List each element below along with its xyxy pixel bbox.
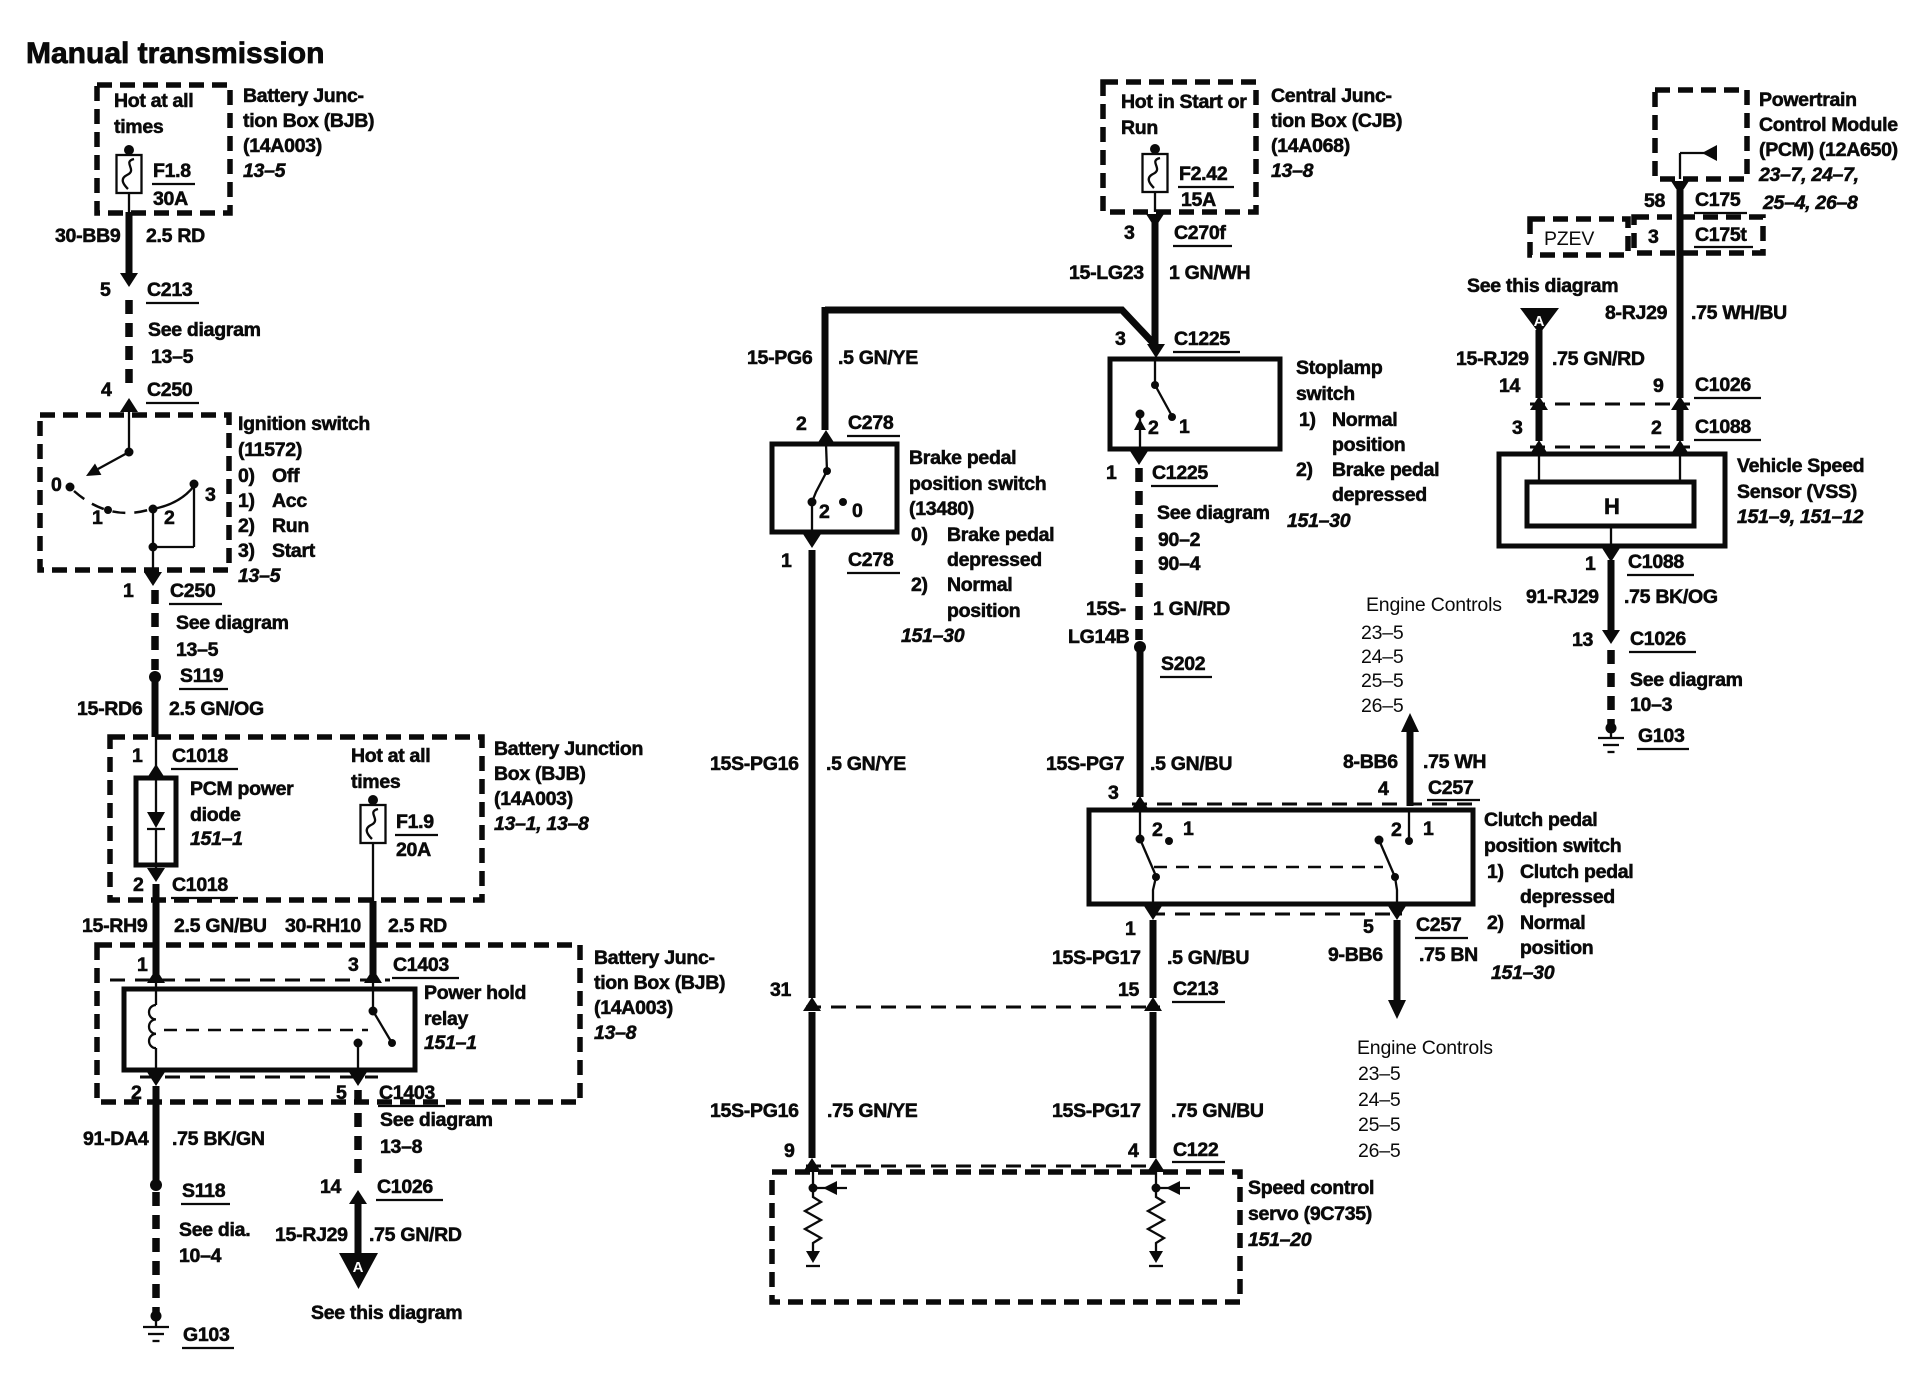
svg-text:1): 1) (238, 490, 255, 512)
svg-text:C213: C213 (147, 279, 193, 301)
connector C1026 pin 13 (1572, 628, 1696, 652)
svg-text:position switch: position switch (1484, 835, 1621, 857)
svg-text:.5 GN/BU: .5 GN/BU (1167, 947, 1249, 969)
svg-text:Manual transmission: Manual transmission (26, 37, 324, 70)
svg-text:Normal: Normal (1520, 912, 1585, 934)
stoplamp switch box (1110, 359, 1280, 449)
svg-text:24–5: 24–5 (1358, 1089, 1401, 1111)
svg-text:5: 5 (1363, 916, 1374, 938)
svg-text:C1026: C1026 (377, 1176, 433, 1198)
power hold relay box (124, 982, 526, 1070)
svg-text:2): 2) (1487, 912, 1504, 934)
wire 8-RJ29 .75 WH/BU from PCM (1605, 190, 1787, 398)
stoplamp switch label text (1287, 357, 1439, 532)
wire 30-BB9 2.5 RD from fuse to C213 (55, 212, 205, 287)
svg-text:C257: C257 (1428, 777, 1473, 799)
clutch switch right contact set (1375, 810, 1435, 904)
svg-text:.75 GN/RD: .75 GN/RD (1552, 348, 1645, 370)
svg-text:Battery Junc-: Battery Junc- (594, 947, 715, 969)
svg-text:25–5: 25–5 (1358, 1114, 1401, 1136)
svg-text:15-RJ29: 15-RJ29 (275, 1224, 348, 1246)
svg-text:Engine Controls: Engine Controls (1366, 594, 1502, 616)
svg-text:0): 0) (238, 465, 255, 487)
speed control servo dashed enclosure (772, 1172, 1240, 1302)
svg-text:C1026: C1026 (1630, 628, 1686, 650)
svg-text:3): 3) (238, 540, 255, 562)
svg-text:PZEV: PZEV (1544, 228, 1594, 250)
svg-text:C1088: C1088 (1628, 551, 1684, 573)
svg-text:13–8: 13–8 (380, 1136, 423, 1158)
svg-text:10–3: 10–3 (1630, 694, 1673, 716)
svg-text:13–5: 13–5 (176, 639, 219, 661)
power hold relay outer dashed enclosure (97, 945, 580, 1102)
fuse F2.42 15A (1143, 144, 1235, 212)
svg-text:15-RD6: 15-RD6 (77, 698, 143, 720)
brake pedal position switch box (772, 444, 897, 532)
svg-text:C250: C250 (147, 379, 193, 401)
svg-text:8-BB6: 8-BB6 (1343, 751, 1398, 773)
connector C250 pin 1 below ignition switch (123, 572, 222, 604)
splice S118 (150, 1179, 250, 1267)
svg-text:S202: S202 (1161, 653, 1206, 675)
svg-text:C1225: C1225 (1152, 462, 1208, 484)
wire 15S-PG17 .75 GN/BU lower (1052, 1012, 1264, 1172)
svg-text:See diagram: See diagram (148, 319, 261, 341)
svg-text:15S-PG16: 15S-PG16 (710, 1100, 799, 1122)
svg-text:tion Box (BJB): tion Box (BJB) (594, 972, 725, 994)
svg-text:Start: Start (272, 540, 316, 562)
svg-text:position switch: position switch (909, 473, 1046, 495)
svg-text:(14A003): (14A003) (594, 997, 673, 1019)
wire 15S-PG7 .5 GN/BU to clutch switch (1046, 652, 1232, 810)
svg-text:4: 4 (1378, 778, 1389, 800)
svg-text:relay: relay (424, 1008, 468, 1030)
connector C278 pin 2 (796, 412, 900, 444)
svg-text:15S-PG17: 15S-PG17 (1052, 947, 1141, 969)
connector C1088 pins 3 and 2 (1512, 416, 1761, 447)
svg-text:3: 3 (1648, 226, 1659, 248)
svg-text:Vehicle Speed: Vehicle Speed (1737, 455, 1864, 477)
svg-text:Central Junc-: Central Junc- (1271, 85, 1392, 107)
svg-text:1: 1 (92, 507, 103, 529)
svg-text:58: 58 (1644, 190, 1666, 212)
svg-text:C270f: C270f (1174, 222, 1226, 244)
clutch switch left contact set (1136, 810, 1195, 904)
svg-text:151–30: 151–30 (901, 625, 965, 647)
svg-text:25–5: 25–5 (1361, 670, 1404, 692)
svg-text:31: 31 (770, 979, 792, 1001)
svg-text:tion Box (BJB): tion Box (BJB) (243, 110, 374, 132)
svg-text:C122: C122 (1173, 1139, 1219, 1161)
svg-text:30-BB9: 30-BB9 (55, 225, 121, 247)
wire 9-BB6 .75 BN down to engine controls (1328, 920, 1493, 1162)
svg-text:15-PG6: 15-PG6 (747, 347, 813, 369)
connector C257 pin 5 (1150, 906, 1468, 938)
servo left coil with wiper (805, 1172, 847, 1266)
svg-text:13–1, 13–8: 13–1, 13–8 (494, 813, 589, 835)
brake pedal switch label text (901, 447, 1054, 647)
svg-text:Battery Junction: Battery Junction (494, 738, 643, 760)
svg-text:See this diagram: See this diagram (1467, 275, 1618, 297)
svg-text:Hot in Start or: Hot in Start or (1121, 91, 1247, 113)
fuse F1.8 30A (117, 145, 196, 212)
svg-text:3: 3 (1108, 782, 1119, 804)
svg-text:C213: C213 (1173, 978, 1219, 1000)
svg-text:151–9, 151–12: 151–9, 151–12 (1737, 506, 1864, 528)
clutch pedal switch label text (1484, 809, 1633, 984)
svg-text:A: A (1534, 313, 1545, 330)
connector C1225 pin 1 (1106, 451, 1218, 486)
svg-text:15S-: 15S- (1086, 598, 1126, 620)
svg-text:3: 3 (1512, 417, 1523, 439)
svg-text:.75 WH/BU: .75 WH/BU (1691, 302, 1787, 324)
svg-text:Box (BJB): Box (BJB) (494, 763, 586, 785)
wire dashed see diagram 13-5 (129, 300, 261, 388)
svg-text:13–8: 13–8 (594, 1022, 637, 1044)
svg-text:Off: Off (272, 465, 300, 487)
svg-text:.75 GN/RD: .75 GN/RD (369, 1224, 462, 1246)
svg-text:14: 14 (320, 1176, 342, 1198)
battery junction box BJB second dashed enclosure with diode and F1.9 (110, 737, 482, 900)
svg-text:C1018: C1018 (172, 745, 228, 767)
svg-text:(11572): (11572) (238, 439, 302, 461)
VSS label text (1737, 455, 1864, 528)
svg-text:1: 1 (1183, 818, 1194, 840)
svg-text:S119: S119 (180, 665, 224, 687)
svg-text:F2.42: F2.42 (1179, 163, 1228, 185)
svg-text:C1018: C1018 (172, 874, 228, 896)
connector C270f pin 3 (1124, 214, 1232, 246)
svg-text:Brake pedal: Brake pedal (1332, 459, 1439, 481)
svg-text:1: 1 (1125, 918, 1136, 940)
svg-text:13–5: 13–5 (243, 160, 287, 182)
svg-text:90–2: 90–2 (1158, 529, 1201, 551)
wire 15-RJ29 .75 GN/RD from A (1456, 330, 1645, 398)
svg-text:91-DA4: 91-DA4 (83, 1128, 149, 1150)
svg-text:C278: C278 (848, 412, 894, 434)
connector C1018 pin 2 (133, 865, 238, 898)
svg-text:G103: G103 (183, 1324, 230, 1346)
engine controls feed 8-BB6 .75 WH with up arrow (1343, 594, 1502, 806)
svg-text:.5 GN/YE: .5 GN/YE (826, 753, 906, 775)
svg-text:3: 3 (348, 954, 359, 976)
svg-text:Hot at all: Hot at all (351, 745, 430, 767)
svg-text:13: 13 (1572, 629, 1594, 651)
svg-text:5: 5 (336, 1082, 347, 1104)
svg-text:C1225: C1225 (1174, 328, 1230, 350)
battery junction box BJB (14A003) dashed enclosure (97, 85, 230, 213)
connector C1403 pins 1 and 3 (110, 954, 459, 983)
svg-text:.75 BK/OG: .75 BK/OG (1624, 586, 1718, 608)
svg-text:0: 0 (51, 474, 62, 496)
svg-text:Ignition switch: Ignition switch (238, 413, 370, 435)
connector C175 pin 58 (1644, 181, 1747, 213)
svg-text:9: 9 (1653, 375, 1664, 397)
servo label text (1248, 1177, 1374, 1251)
svg-text:F1.8: F1.8 (153, 160, 191, 182)
svg-text:position: position (1520, 937, 1593, 959)
svg-text:15: 15 (1118, 979, 1140, 1001)
svg-text:26–5: 26–5 (1361, 695, 1404, 717)
connector C213 pin 5 (100, 279, 199, 303)
svg-text:151–1: 151–1 (424, 1032, 477, 1054)
svg-text:23–5: 23–5 (1358, 1063, 1401, 1085)
svg-text:C1403: C1403 (393, 954, 449, 976)
svg-text:3: 3 (1124, 222, 1135, 244)
svg-text:1: 1 (781, 550, 792, 572)
off-page arrow A from this diagram (1467, 275, 1618, 334)
svg-text:1: 1 (137, 954, 148, 976)
svg-text:15S-PG16: 15S-PG16 (710, 753, 799, 775)
wire dashed see diagram 90-2 90-4 to S202 (1068, 468, 1270, 648)
svg-text:30A: 30A (153, 188, 188, 210)
svg-text:Speed control: Speed control (1248, 1177, 1374, 1199)
svg-text:H: H (1604, 494, 1620, 519)
svg-text:position: position (1332, 434, 1405, 456)
svg-text:3: 3 (1115, 328, 1126, 350)
svg-text:Acc: Acc (272, 490, 307, 512)
svg-text:C278: C278 (848, 549, 894, 571)
svg-text:(PCM) (12A650): (PCM) (12A650) (1759, 139, 1898, 161)
svg-text:2): 2) (1296, 459, 1313, 481)
svg-text:Stoplamp: Stoplamp (1296, 357, 1383, 379)
connector C213 pins 31 and 15 (806, 978, 1225, 1011)
svg-text:See dia.: See dia. (179, 1219, 250, 1241)
wire 15S-PG16 .75 GN/YE lower (710, 1012, 918, 1172)
svg-text:depressed: depressed (1332, 484, 1427, 506)
connector C1403 pins 2 and 5 (131, 1072, 445, 1106)
ground G103 right (1598, 723, 1689, 753)
ground G103 left (143, 1311, 234, 1349)
svg-text:1): 1) (1299, 409, 1316, 431)
svg-text:13–5: 13–5 (238, 565, 282, 587)
svg-text:switch: switch (1296, 383, 1355, 405)
svg-text:24–5: 24–5 (1361, 646, 1404, 668)
splice S119 (149, 665, 228, 689)
svg-text:(14A003): (14A003) (243, 135, 322, 157)
svg-text:5: 5 (100, 279, 111, 301)
svg-text:See this diagram: See this diagram (311, 1302, 462, 1324)
svg-text:C257: C257 (1416, 914, 1461, 936)
fuse F1.9 20A hot at all times (351, 745, 438, 901)
wire 15-LG23 1 GN/WH (1069, 218, 1250, 344)
svg-text:2.5 RD: 2.5 RD (388, 915, 447, 937)
ignition switch rotary contacts (51, 448, 216, 571)
svg-text:2): 2) (238, 515, 255, 537)
connector C250 pin 4 (101, 379, 199, 452)
svg-text:30-RH10: 30-RH10 (285, 915, 361, 937)
svg-text:C1403: C1403 (379, 1082, 435, 1104)
svg-text:servo (9C735): servo (9C735) (1248, 1203, 1372, 1225)
svg-text:C250: C250 (170, 580, 216, 602)
svg-text:C1088: C1088 (1695, 416, 1751, 438)
svg-text:Sensor (VSS): Sensor (VSS) (1737, 481, 1857, 503)
svg-text:1: 1 (1106, 462, 1117, 484)
svg-text:Clutch pedal: Clutch pedal (1520, 861, 1633, 883)
BJB2 label text (494, 738, 643, 835)
wire dashed to ground G103 (152, 1192, 160, 1312)
svg-text:Clutch pedal: Clutch pedal (1484, 809, 1597, 831)
ignition switch label text (238, 413, 370, 587)
powertrain control module PCM dashed enclosure (1655, 90, 1747, 179)
svg-text:times: times (114, 116, 164, 138)
svg-text:position: position (947, 600, 1020, 622)
svg-text:0: 0 (852, 500, 863, 522)
svg-text:90–4: 90–4 (1158, 553, 1201, 575)
CJB label text (1271, 85, 1402, 182)
wire dashed see diagram 13-5 to S119 (155, 590, 289, 670)
svg-text:A: A (353, 1259, 364, 1276)
svg-text:Normal: Normal (947, 574, 1012, 596)
connector C1018 pin 1 (132, 737, 238, 778)
svg-text:2): 2) (911, 574, 928, 596)
svg-text:S118: S118 (182, 1180, 226, 1202)
connector C1026 pins 14 and 9 (1499, 374, 1761, 410)
svg-text:Hot at all: Hot at all (114, 90, 193, 112)
clutch pedal position switch box (1089, 810, 1473, 904)
wire segments between C1026 and C1088 (1530, 410, 1689, 454)
svg-text:.75 BN: .75 BN (1419, 944, 1478, 966)
svg-text:C175: C175 (1695, 189, 1741, 211)
svg-text:9: 9 (784, 1140, 795, 1162)
svg-text:.5 GN/BU: .5 GN/BU (1150, 753, 1232, 775)
svg-text:15-LG23: 15-LG23 (1069, 262, 1144, 284)
svg-text:.75 GN/YE: .75 GN/YE (827, 1100, 918, 1122)
svg-text:2: 2 (819, 501, 830, 523)
svg-text:2: 2 (1651, 417, 1662, 439)
svg-text:151–20: 151–20 (1248, 1229, 1312, 1251)
ignition switch 11572 dashed enclosure (40, 415, 229, 570)
svg-text:1: 1 (1423, 818, 1434, 840)
wire 15S-PG17 .5 GN/BU from clutch pin 1 (1052, 906, 1249, 998)
svg-text:Engine Controls: Engine Controls (1357, 1037, 1493, 1059)
svg-text:Brake pedal: Brake pedal (947, 524, 1054, 546)
svg-text:depressed: depressed (1520, 886, 1615, 908)
svg-text:.75 BK/GN: .75 BK/GN (172, 1128, 265, 1150)
svg-text:0): 0) (911, 524, 928, 546)
svg-text:3: 3 (205, 484, 216, 506)
servo right coil with wiper (1148, 1172, 1190, 1266)
svg-text:Power hold: Power hold (424, 982, 526, 1004)
svg-text:15-RH9: 15-RH9 (82, 915, 148, 937)
svg-text:1: 1 (1585, 553, 1596, 575)
svg-text:2: 2 (131, 1082, 142, 1104)
svg-text:151–1: 151–1 (190, 828, 243, 850)
svg-text:15A: 15A (1181, 189, 1216, 211)
svg-text:times: times (351, 771, 401, 793)
svg-text:C175t: C175t (1695, 224, 1747, 246)
svg-text:Run: Run (1121, 117, 1158, 139)
connector C1225 pin 3 (1115, 328, 1240, 358)
svg-text:13–5: 13–5 (151, 346, 194, 368)
wire 15S-PG16 .5 GN/YE (710, 550, 906, 1011)
svg-text:151–30: 151–30 (1491, 962, 1555, 984)
off-page arrow A (to this diagram) (311, 1253, 462, 1324)
svg-text:.75 WH: .75 WH (1423, 751, 1486, 773)
connector C1026 pin 14 (320, 1176, 443, 1204)
svg-text:Run: Run (272, 515, 309, 537)
connector C257 pin 4 (1132, 777, 1480, 804)
wire branch to brake pedal position switch (747, 307, 1155, 430)
svg-text:depressed: depressed (947, 549, 1042, 571)
connector C278 pin 1 (781, 534, 900, 573)
svg-text:.75 GN/BU: .75 GN/BU (1171, 1100, 1264, 1122)
svg-text:Brake pedal: Brake pedal (909, 447, 1016, 469)
svg-text:25–4, 26–8: 25–4, 26–8 (1762, 192, 1858, 214)
svg-text:Powertrain: Powertrain (1759, 89, 1857, 111)
svg-text:See diagram: See diagram (380, 1109, 493, 1131)
svg-text:(13480): (13480) (909, 498, 974, 520)
svg-text:.5 GN/YE: .5 GN/YE (838, 347, 918, 369)
svg-text:4: 4 (1128, 1140, 1139, 1162)
svg-text:1: 1 (1179, 416, 1190, 438)
svg-text:151–30: 151–30 (1287, 510, 1351, 532)
PCM power diode (136, 778, 294, 865)
connector C122 pins 9 and 4 (806, 1139, 1225, 1166)
wire 15-RD6 2.5 GN/OG (77, 677, 264, 737)
svg-text:F1.9: F1.9 (396, 811, 434, 833)
svg-text:PCM power: PCM power (190, 778, 294, 800)
wire 91-DA4 .75 BK/GN to S118 (83, 1086, 265, 1182)
svg-text:4: 4 (101, 379, 112, 401)
svg-text:20A: 20A (396, 839, 431, 861)
svg-text:2.5 GN/BU: 2.5 GN/BU (174, 915, 267, 937)
BJB relay label text (594, 947, 725, 1044)
svg-text:2: 2 (1152, 819, 1163, 841)
svg-text:(14A068): (14A068) (1271, 135, 1350, 157)
svg-text:2.5 GN/OG: 2.5 GN/OG (169, 698, 264, 720)
svg-text:1 GN/WH: 1 GN/WH (1169, 262, 1250, 284)
svg-text:LG14B: LG14B (1068, 626, 1130, 648)
central junction box CJB dashed enclosure (1103, 82, 1256, 212)
splice S202 (1134, 641, 1212, 677)
svg-text:(14A003): (14A003) (494, 788, 573, 810)
svg-text:15S-PG7: 15S-PG7 (1046, 753, 1124, 775)
svg-text:9-BB6: 9-BB6 (1328, 944, 1383, 966)
svg-text:23–5: 23–5 (1361, 622, 1404, 644)
svg-text:See diagram: See diagram (1630, 669, 1743, 691)
svg-text:15S-PG17: 15S-PG17 (1052, 1100, 1141, 1122)
svg-text:14: 14 (1499, 375, 1521, 397)
svg-text:2: 2 (796, 413, 807, 435)
svg-text:Control Module: Control Module (1759, 114, 1898, 136)
svg-text:1 GN/RD: 1 GN/RD (1153, 598, 1230, 620)
svg-text:See diagram: See diagram (176, 612, 289, 634)
svg-text:10–4: 10–4 (179, 1245, 222, 1267)
svg-text:G103: G103 (1638, 725, 1685, 747)
svg-text:2: 2 (164, 507, 175, 529)
svg-text:1): 1) (1487, 861, 1504, 883)
wire dashed see diagram 10-3 (1611, 650, 1743, 724)
svg-text:Battery Junc-: Battery Junc- (243, 85, 364, 107)
svg-text:Normal: Normal (1332, 409, 1397, 431)
PCM label text (1758, 89, 1898, 214)
svg-text:15-RJ29: 15-RJ29 (1456, 348, 1529, 370)
svg-text:26–5: 26–5 (1358, 1140, 1401, 1162)
wire 15-RJ29 .75 GN/RD to A (275, 1204, 462, 1254)
wire dashed see diagram 13-8 from relay pin 5 (358, 1090, 493, 1182)
svg-text:C1026: C1026 (1695, 374, 1751, 396)
connector C1088 pin 1 (1585, 548, 1694, 575)
svg-text:2.5 RD: 2.5 RD (146, 225, 205, 247)
wire 91-RJ29 .75 BK/OG (1526, 560, 1718, 630)
svg-text:8-RJ29: 8-RJ29 (1605, 302, 1668, 324)
svg-text:13–8: 13–8 (1271, 160, 1314, 182)
svg-text:2: 2 (1391, 819, 1402, 841)
svg-text:1: 1 (123, 580, 134, 602)
vehicle speed sensor VSS box (1499, 454, 1725, 546)
svg-text:2: 2 (133, 874, 144, 896)
